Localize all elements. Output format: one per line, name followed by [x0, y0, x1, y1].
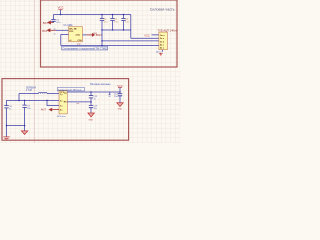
capacitor C2 [100, 14, 109, 31]
wire mid rail [7, 99, 60, 101]
wire VCC drop [60, 10, 62, 15]
capacitor C4 [121, 14, 130, 31]
svg-text:ТХD АЦП 14бит: ТХD АЦП 14бит [158, 29, 178, 33]
power port VCC (top) [58, 6, 64, 10]
capacitor C16 [89, 102, 98, 113]
svg-text:D-: D- [54, 34, 56, 36]
svg-text:4.7uH: 4.7uH [26, 90, 32, 92]
svg-text:К подсистеме ТМ стр.1: К подсистеме ТМ стр.1 [58, 89, 82, 91]
sheet border (receiver block) [2, 79, 129, 141]
capacitor C3 [110, 14, 119, 31]
svg-text:Силовая часть: Силовая часть [150, 8, 175, 12]
ground (earth bars) [3, 126, 9, 140]
inductor L1 [26, 88, 47, 94]
svg-text:GND: GND [89, 120, 94, 122]
svg-text:VCC: VCC [58, 6, 64, 10]
stub + label on TX wire [108, 92, 110, 98]
capacitor C15 [89, 92, 98, 102]
wire VCC to X1 pin1 [152, 34, 159, 36]
wire long net line [61, 45, 159, 47]
svg-text:GND: GND [118, 109, 123, 111]
wire U2 TX right [67, 91, 120, 93]
wire port2 to U1 [56, 29, 69, 31]
wire caps bottom bus [102, 29, 131, 31]
svg-text:10u: 10u [114, 96, 117, 98]
label box (to MCU) [57, 88, 84, 92]
ground below X1 [159, 53, 163, 56]
node pin3 crossing [101, 40, 103, 42]
net label box (to MCU subsystem) [62, 46, 109, 50]
node [46, 100, 48, 102]
node on long line [101, 45, 103, 47]
ground (triangle) [21, 126, 27, 135]
node [90, 91, 92, 93]
ground (triangle) under C14 [117, 103, 123, 111]
wire left drop [6, 100, 8, 105]
svg-text:GPS ант.: GPS ант. [57, 116, 66, 118]
ground (triangle) under C16 [88, 113, 94, 122]
wire U2 RX right [67, 101, 91, 103]
wire L1 to U2 [47, 93, 59, 95]
capacitor C14 [114, 93, 122, 102]
svg-text:10u: 10u [94, 108, 97, 110]
wire top (to L1) [19, 93, 39, 95]
node [119, 91, 121, 93]
wire drop to rail2 [18, 94, 20, 101]
wire step to pin3 [47, 100, 59, 105]
GPS module U2 [59, 90, 67, 114]
node [24, 100, 26, 102]
port BX1 (left arrow) [43, 21, 54, 26]
node [90, 101, 92, 103]
wire VCC rail [54, 14, 131, 16]
port output arrow (right) [86, 33, 102, 37]
capacitor C8 [4, 106, 12, 126]
svg-text:АНТ: АНТ [41, 108, 47, 112]
wire rail left drop [53, 15, 55, 20]
port antenna (left arrow) [41, 108, 59, 112]
svg-text:3н в: 3н в [160, 41, 165, 43]
wire to X1 pin3 [102, 40, 159, 42]
wire U1 pin2 [61, 33, 69, 35]
faint page boundary line [34, 0, 36, 143]
wire U1 pin2 drop [60, 34, 62, 45]
capacitor C1 [51, 19, 61, 24]
port BX2 (left arrow) [42, 28, 56, 33]
wire U1 output [83, 34, 87, 36]
wire bottom bus [7, 125, 25, 127]
svg-text:С1А: С1А [78, 39, 83, 42]
svg-text:U1 АМС: U1 АМС [64, 24, 73, 27]
power port VCC (receiver) [117, 84, 123, 92]
sheet border (power subsystem block) [41, 0, 178, 67]
wire X1 bottom pin [162, 50, 164, 52]
svg-text:ВХ1: ВХ1 [43, 21, 48, 25]
op-amp / regulator U1 [64, 24, 83, 42]
wire vertical from bus to long line [101, 30, 103, 46]
svg-text:Ант.1: Ант.1 [156, 51, 162, 54]
svg-text:Согласование с подсистемой ТМ: Согласование с подсистемой ТМ СТМ32 [62, 47, 108, 50]
wire to X1 pin2 [131, 37, 159, 39]
svg-text:Питание антенны: Питание антенны [90, 83, 111, 86]
wire rail right drop [130, 15, 132, 39]
svg-text:VCC: VCC [117, 84, 123, 88]
svg-text:ант: ант [76, 103, 79, 105]
capacitor C9 [22, 100, 31, 125]
svg-text:VCC: VCC [144, 34, 150, 38]
connector X1 [158, 29, 178, 50]
svg-text:ВХ2: ВХ2 [42, 29, 47, 33]
svg-text:1n: 1n [94, 98, 96, 100]
node: VCC rail junction [60, 14, 62, 16]
svg-text:50: 50 [108, 96, 110, 98]
node [18, 100, 20, 102]
